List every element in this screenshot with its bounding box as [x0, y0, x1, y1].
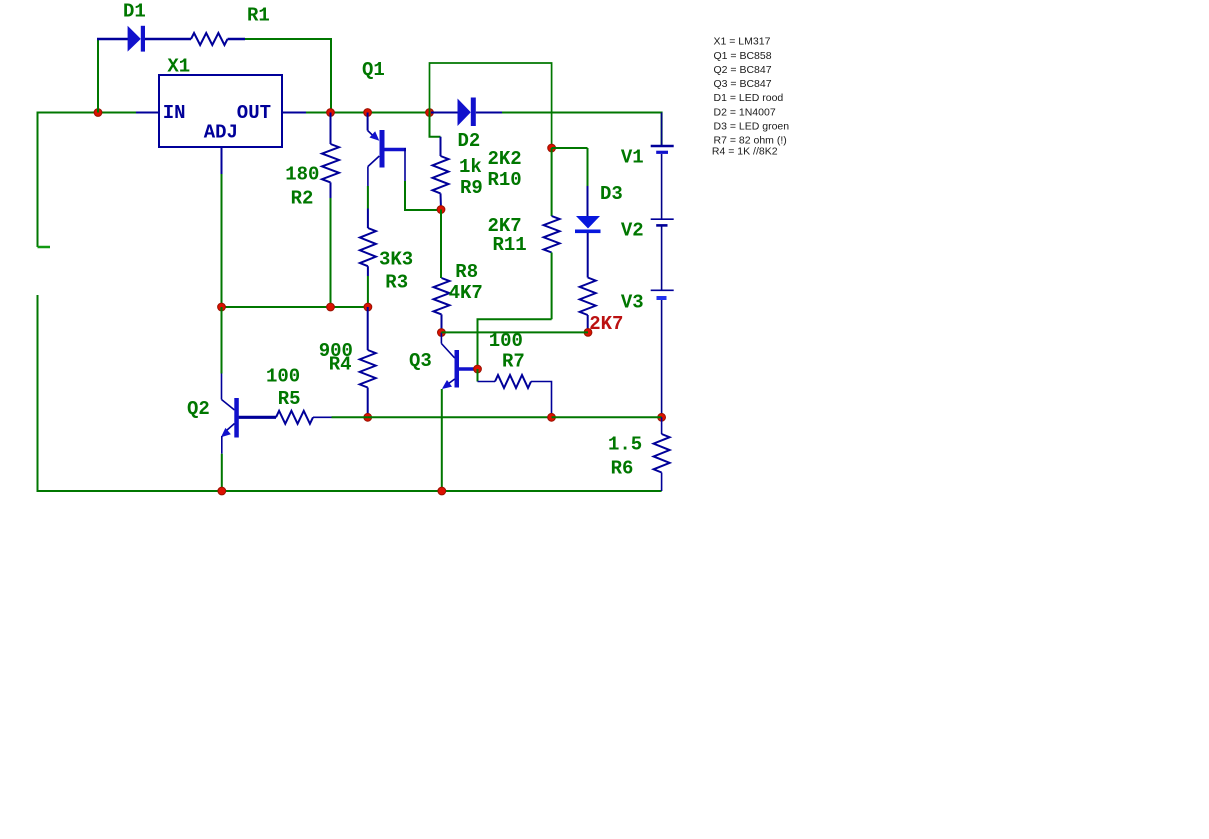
wire X1 IN lead	[136, 112, 159, 114]
resistor R8 body	[434, 278, 450, 314]
wire R11 to Q3 base	[478, 319, 552, 369]
wire R4 top lead	[367, 307, 369, 350]
wire R6 top lead	[661, 417, 663, 434]
wire LED branch horizontal	[552, 147, 588, 149]
transistor Q3 bar	[455, 350, 460, 388]
svg-text:Q3 = BC847: Q3 = BC847	[714, 78, 772, 90]
transistor Q3 base stub	[459, 367, 478, 370]
node LED branch junction	[548, 144, 556, 152]
wire adjust rail	[222, 306, 368, 308]
svg-text:IN: IN	[163, 102, 186, 124]
battery V1 minus plate	[656, 151, 668, 154]
battery V3 plus plate	[651, 289, 674, 291]
wire Q1 base net	[405, 181, 441, 210]
node 2K7 junction	[584, 329, 592, 337]
svg-text:2K7: 2K7	[589, 313, 623, 335]
wire R3 bottom lead	[367, 266, 369, 276]
transistor Q1 emitter	[368, 131, 380, 141]
resistor R7 body	[495, 375, 531, 388]
svg-text:R4 = 1K //8K2: R4 = 1K //8K2	[712, 145, 778, 157]
wire 2K7 bottom lead	[587, 315, 589, 332]
wire R11 top lead	[551, 148, 553, 216]
wire R1 right lead	[228, 38, 246, 41]
resistor R5 body	[276, 411, 313, 424]
wire V2-V3 lead	[661, 227, 663, 291]
battery V2 minus plate	[656, 224, 667, 227]
transistor Q1 collector	[368, 156, 379, 167]
op-amp U1 X1 LM317 box	[159, 75, 282, 147]
svg-text:1.5: 1.5	[608, 434, 642, 456]
battery V3 minus plate	[657, 296, 667, 300]
wire R4 bottom lead	[367, 388, 369, 418]
node R7 bottom junction	[548, 413, 556, 421]
svg-text:Q1: Q1	[362, 59, 385, 81]
svg-text:Q2: Q2	[187, 398, 210, 420]
svg-text:D3: D3	[600, 183, 623, 205]
wire R8 top lead	[440, 210, 442, 279]
node Q3 collector junction	[438, 329, 446, 337]
transistor Q3 collector	[441, 344, 454, 359]
svg-text:R8: R8	[455, 261, 478, 283]
svg-text:Q2 = BC847: Q2 = BC847	[714, 64, 772, 76]
svg-text:Q3: Q3	[409, 350, 432, 372]
wire X1 ADJ lead	[221, 147, 223, 174]
wire Q1 emitter vertical	[367, 113, 369, 131]
transistor Q2 bar	[234, 398, 239, 438]
wire R7 right lead	[531, 382, 552, 418]
resistor 2K7 body below D3	[580, 278, 596, 316]
svg-text:R11: R11	[493, 234, 527, 256]
svg-text:X1 = LM317: X1 = LM317	[714, 36, 771, 48]
wire X1 OUT lead	[282, 112, 306, 114]
node Q2 emitter ground junction	[218, 487, 226, 495]
wire Q2 collector lead	[221, 374, 223, 400]
wire Q1 collector net	[367, 186, 369, 209]
diode D1	[128, 26, 145, 52]
wire lower-left vertical	[37, 295, 39, 491]
wire D1 anode lead	[97, 38, 128, 41]
svg-text:ADJ: ADJ	[204, 122, 238, 144]
wire sense rail right	[552, 416, 662, 418]
svg-text:2K2: 2K2	[488, 148, 522, 170]
wire Q3 collector to 2K7 net	[441, 331, 588, 333]
wire Q2 emitter lead	[221, 436, 223, 454]
diode D3	[575, 216, 601, 233]
wire R9 bottom lead	[440, 193, 443, 209]
wire Q3 emitter vertical	[441, 389, 443, 491]
component list text	[712, 36, 789, 158]
wire R3 to adj rail	[367, 276, 369, 307]
svg-text:R9: R9	[460, 177, 483, 199]
wire V1-V2 lead	[661, 154, 663, 219]
resistor R3 body	[360, 228, 376, 266]
wire input stub tick	[38, 246, 51, 249]
wire main rail left segment	[37, 112, 137, 114]
node R4 bottom junction	[364, 413, 372, 421]
wire D3 anode lead	[587, 186, 589, 216]
resistor R9 body	[433, 156, 449, 193]
wire Q2 collector net	[221, 307, 223, 374]
diode D2	[458, 98, 476, 127]
svg-text:100: 100	[266, 366, 300, 388]
wire R3 top lead	[367, 209, 369, 229]
wire R2 top lead	[330, 113, 332, 145]
svg-text:D1 = LED rood: D1 = LED rood	[714, 92, 784, 104]
wire R1 to OUT node	[245, 39, 331, 113]
svg-text:OUT: OUT	[237, 102, 271, 124]
wire R9 top lead	[440, 137, 442, 156]
node D2 anode junction	[426, 109, 434, 117]
wire R2 bottom lead	[330, 182, 332, 198]
svg-text:R7: R7	[502, 351, 525, 373]
svg-text:D3 = LED groen: D3 = LED groen	[714, 121, 790, 133]
wire R11 bottom lead	[551, 253, 553, 320]
wire R5 right lead	[313, 416, 332, 418]
node battery-R6 junction	[658, 413, 666, 421]
svg-text:R2: R2	[291, 188, 314, 210]
node Q3 base junction	[474, 365, 482, 373]
wire battery top lead	[661, 113, 663, 146]
node Q1 emitter junction	[364, 109, 372, 117]
wire D1 branch vertical	[97, 39, 99, 113]
svg-text:180: 180	[285, 164, 319, 186]
wire D2 bypass top	[430, 63, 552, 148]
svg-text:D2: D2	[458, 130, 481, 152]
node Q3 emitter ground junction	[438, 487, 446, 495]
wire R7 left net	[477, 369, 479, 382]
wire bottom ground rail	[37, 490, 662, 492]
node R3-R4 junction	[364, 303, 372, 311]
transistor Q1 bar	[380, 130, 385, 168]
wire R8 bottom lead	[441, 314, 443, 332]
svg-text:V1: V1	[621, 147, 644, 169]
wire Q2 emitter ground	[221, 454, 223, 491]
battery V2 plus plate	[651, 218, 674, 220]
svg-text:D2 = 1N4007: D2 = 1N4007	[714, 106, 776, 118]
resistor R2 body	[322, 144, 339, 182]
node Q1 base junction	[437, 206, 445, 214]
transistor Q2 emitter	[221, 424, 235, 438]
node input junction	[94, 109, 102, 117]
transistor Q2 base stub	[239, 416, 276, 419]
resistor R11 body	[544, 216, 560, 253]
transistor Q1 base stub	[385, 148, 407, 152]
resistor R1 body	[191, 33, 228, 45]
svg-text:3K3: 3K3	[379, 249, 413, 271]
node OUT junction	[327, 109, 335, 117]
wire D3 cathode lead	[587, 233, 589, 278]
transistor Q2 collector	[222, 400, 235, 411]
node R2 bottom junction	[327, 303, 335, 311]
wire Q3 collector lead	[440, 333, 442, 344]
wire R2 to adj rail	[330, 198, 332, 307]
wire sense rail middle	[368, 416, 552, 418]
node ADJ rail left junction	[218, 303, 226, 311]
resistor R4 body	[360, 350, 376, 388]
wire R6 bottom lead	[661, 473, 663, 492]
svg-text:X1: X1	[167, 56, 190, 78]
svg-text:Q1 = BC858: Q1 = BC858	[714, 50, 772, 62]
wire R7 left lead	[478, 381, 496, 383]
svg-text:R6: R6	[611, 458, 634, 480]
wire R9 jog	[430, 113, 441, 137]
svg-text:V3: V3	[621, 292, 644, 314]
svg-text:4K7: 4K7	[449, 282, 483, 304]
svg-text:R3: R3	[385, 272, 408, 294]
svg-text:R1: R1	[247, 5, 270, 27]
wire ADJ net vertical	[221, 174, 223, 307]
svg-text:V2: V2	[621, 220, 644, 242]
wire main rail to battery	[502, 113, 662, 146]
wire Q1 base down	[404, 148, 406, 181]
wire D1-R1 lead	[145, 38, 191, 41]
wire main rail OUT segment	[306, 112, 434, 114]
wire R5 net to R4	[332, 416, 368, 418]
svg-text:1k: 1k	[459, 156, 482, 178]
wire left vertical input stub	[37, 113, 39, 248]
svg-text:D1: D1	[123, 1, 146, 23]
resistor R6 body	[654, 434, 670, 473]
battery V1 plus plate	[651, 145, 674, 148]
transistor Q3 emitter	[442, 379, 455, 389]
wire D3 top net	[587, 148, 589, 186]
svg-text:R4: R4	[329, 354, 352, 376]
svg-text:R5: R5	[278, 388, 301, 410]
wire Q1 collector lead	[367, 167, 369, 187]
wire D2 anode lead	[431, 112, 458, 114]
svg-text:R10: R10	[488, 169, 522, 191]
wire battery bottom lead	[661, 300, 663, 417]
wire D2 cathode lead	[476, 112, 502, 114]
